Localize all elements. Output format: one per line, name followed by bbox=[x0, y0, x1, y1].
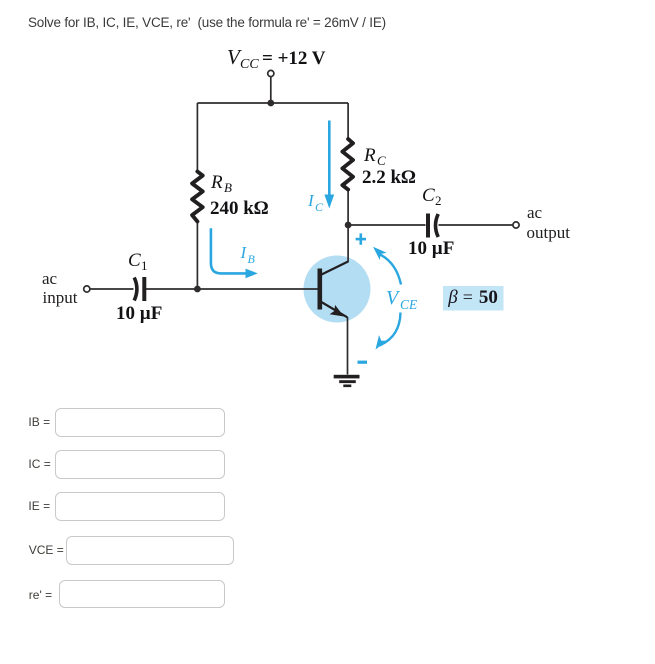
wire: RB top lead bbox=[196, 103, 198, 170]
wire: VCC terminal to top rail bbox=[270, 77, 272, 103]
vcc terminal circle bbox=[268, 70, 274, 76]
svg-text:C: C bbox=[128, 250, 141, 271]
svg-text:input: input bbox=[43, 288, 78, 307]
svg-text:2: 2 bbox=[435, 193, 442, 208]
current arrow IC bbox=[324, 121, 334, 209]
capacitor C1 plates bbox=[134, 277, 144, 301]
plus sign (VCE) bbox=[356, 233, 366, 244]
svg-text:CC: CC bbox=[240, 57, 259, 72]
svg-text:C: C bbox=[315, 200, 324, 214]
transistor collector lead bbox=[321, 262, 349, 276]
svg-text:output: output bbox=[527, 223, 571, 242]
ac output terminal circle bbox=[513, 222, 519, 228]
svg-text:10 µF: 10 µF bbox=[116, 303, 162, 324]
ground bbox=[334, 375, 360, 387]
node: top rail junction bbox=[267, 100, 274, 107]
wire: base wire C1 to base bbox=[146, 288, 318, 290]
wire: RC top lead bbox=[347, 103, 349, 138]
svg-text:B: B bbox=[224, 180, 232, 195]
svg-text:1: 1 bbox=[141, 258, 148, 273]
wire: emitter to ground bbox=[347, 317, 349, 375]
ac input terminal circle bbox=[84, 286, 90, 292]
svg-text:ac: ac bbox=[42, 269, 58, 288]
svg-text:10 µF: 10 µF bbox=[408, 238, 454, 259]
svg-text:V: V bbox=[386, 287, 401, 309]
transistor Q1 circle highlight bbox=[304, 256, 371, 323]
svg-text:R: R bbox=[210, 172, 223, 193]
answer fields bbox=[28, 415, 50, 429]
svg-text:=: = bbox=[463, 287, 473, 307]
wire: collector node to C2 bbox=[348, 224, 425, 226]
svg-text:50: 50 bbox=[479, 287, 498, 308]
minus sign (VCE) bbox=[358, 361, 368, 364]
wire: C2 to output terminal bbox=[439, 224, 513, 226]
svg-text:B: B bbox=[248, 252, 256, 266]
node: base junction bbox=[194, 286, 201, 293]
wire: RC bottom lead to collector node bbox=[347, 191, 349, 226]
svg-text:C: C bbox=[377, 153, 386, 168]
resistor RB bbox=[192, 172, 203, 222]
VCE arc arrows bbox=[379, 254, 401, 346]
capacitor C2 plates bbox=[428, 214, 438, 238]
svg-text:= +12 V: = +12 V bbox=[262, 48, 326, 69]
transistor base bar bbox=[318, 269, 323, 310]
svg-text:ac: ac bbox=[527, 203, 543, 222]
beta = 50 highlight box bbox=[443, 286, 504, 311]
label VCC = +12 V bbox=[227, 45, 326, 72]
svg-text:I: I bbox=[307, 191, 315, 210]
svg-text:β: β bbox=[447, 287, 458, 308]
resistor RC bbox=[342, 139, 353, 190]
svg-text:R: R bbox=[363, 145, 376, 166]
svg-text:C: C bbox=[422, 185, 435, 206]
current arrow IB bbox=[211, 228, 247, 273]
node: collector junction bbox=[345, 222, 352, 229]
svg-text:CE: CE bbox=[400, 297, 418, 312]
wire: top rail bbox=[197, 102, 348, 104]
svg-text:2.2 kΩ: 2.2 kΩ bbox=[362, 167, 416, 188]
svg-text:I: I bbox=[240, 243, 248, 262]
wire: base wire input side bbox=[90, 288, 134, 290]
transistor emitter lead with arrow bbox=[321, 302, 348, 318]
svg-text:240 kΩ: 240 kΩ bbox=[210, 198, 269, 219]
wire: RB bottom lead bbox=[196, 222, 198, 289]
